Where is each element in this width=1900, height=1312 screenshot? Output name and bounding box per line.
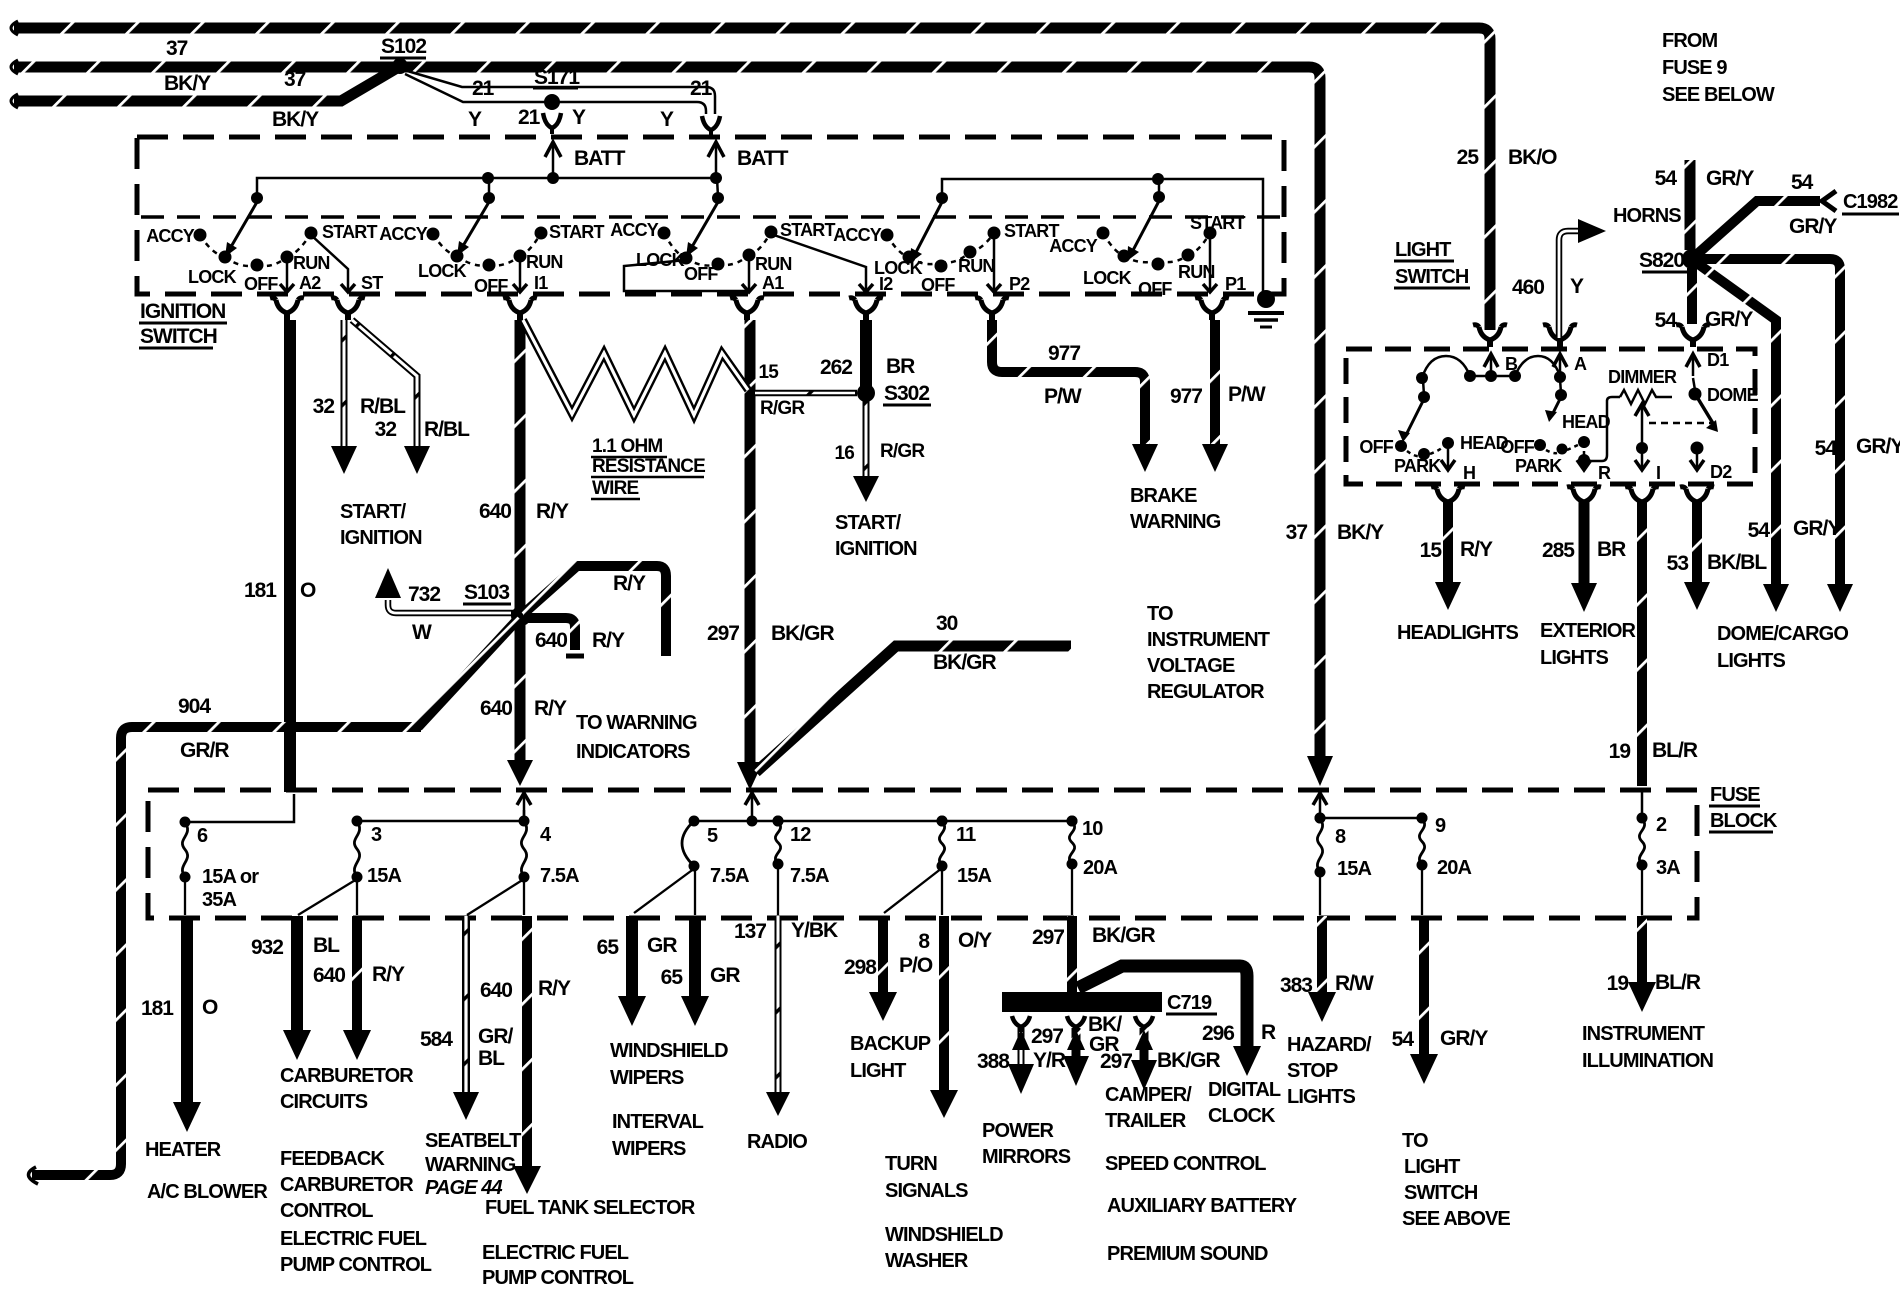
svg-text:16: 16 <box>834 443 854 464</box>
svg-text:GR/Y: GR/Y <box>1789 215 1837 238</box>
wire 54 GR/Y (S820 right, down to dome/cargo arrow) <box>1694 259 1900 612</box>
svg-text:ILLUMINATION: ILLUMINATION <box>1582 1050 1713 1072</box>
svg-text:I2: I2 <box>879 274 893 294</box>
wire fuse 4 to 640 wire <box>523 879 525 915</box>
light switch contact curve <box>1416 356 1566 384</box>
wire 584 GR/BL (to seatbelt warning) <box>420 916 514 1120</box>
svg-text:20A: 20A <box>1083 857 1117 879</box>
label BRAKE WARNING <box>1130 485 1221 533</box>
svg-text:OFF: OFF <box>1359 437 1393 457</box>
svg-text:FEEDBACK: FEEDBACK <box>280 1148 385 1170</box>
svg-text:OFF: OFF <box>244 274 278 294</box>
fuse 10 (20A) <box>1067 816 1118 880</box>
wire 54 GR/Y (S820 to C1982) <box>1694 171 1899 257</box>
ignition switch cluster 2 (I1) <box>379 202 604 296</box>
wire 19 BL/R (fuse 2 to instrument illumination) <box>1607 916 1701 1012</box>
svg-text:S102: S102 <box>381 35 426 58</box>
dimmer resistor <box>1608 367 1677 404</box>
svg-text:R/Y: R/Y <box>613 572 646 595</box>
svg-text:R/GR: R/GR <box>880 441 925 462</box>
ignition switch cluster 1 (A2/ST) <box>146 202 377 294</box>
light switch right wiper chain <box>1500 379 1610 476</box>
fuse 5 (7.5A) <box>682 816 749 888</box>
label TO LIGHT SWITCH SEE ABOVE <box>1402 1130 1510 1230</box>
svg-text:21: 21 <box>472 77 495 100</box>
ground (ignition switch P1) <box>1248 290 1284 327</box>
svg-text:12: 12 <box>790 824 811 846</box>
svg-text:54: 54 <box>1392 1028 1415 1051</box>
light switch terminal A <box>1553 354 1587 376</box>
label TO WARNING INDICATORS <box>576 712 697 763</box>
svg-text:O: O <box>202 996 218 1019</box>
fuse 6 (15A or 35A) <box>180 817 260 889</box>
svg-text:AUXILIARY BATTERY: AUXILIARY BATTERY <box>1107 1195 1298 1217</box>
svg-text:START/: START/ <box>340 501 407 523</box>
ignition switch terminal P2 <box>987 235 1030 294</box>
svg-text:Y: Y <box>468 108 482 131</box>
wire 732 W (S103 to arrow up) <box>375 568 513 644</box>
svg-text:S103: S103 <box>464 581 509 604</box>
label FEEDBACK CARBURETOR CONTROL <box>280 1148 414 1222</box>
connector below light switch R <box>1567 487 1601 502</box>
wire 137 Y/BK (to radio) <box>734 916 838 1116</box>
ignition switch cluster 4 (P2) <box>833 202 1059 295</box>
wire internal bus (right) <box>936 173 1263 296</box>
svg-text:388: 388 <box>977 1050 1010 1073</box>
svg-text:R/Y: R/Y <box>592 629 625 652</box>
svg-text:D1: D1 <box>1707 350 1729 370</box>
svg-text:BK/Y: BK/Y <box>164 72 211 95</box>
svg-text:HAZARD/: HAZARD/ <box>1287 1034 1372 1056</box>
svg-text:DIMMER: DIMMER <box>1608 367 1677 387</box>
connector at x=747 below ignition switch <box>730 298 764 320</box>
light switch terminal D1 <box>1686 350 1729 376</box>
svg-text:2: 2 <box>1656 814 1667 836</box>
svg-text:START: START <box>322 222 377 242</box>
svg-text:297: 297 <box>1032 926 1064 949</box>
svg-text:8: 8 <box>918 930 930 953</box>
svg-text:HEATER: HEATER <box>145 1139 222 1161</box>
light switch box (dashed) <box>1346 349 1755 484</box>
BATT terminal 1 <box>545 142 626 176</box>
ignition switch cluster 5 (P1) <box>1049 201 1245 299</box>
fuse 8 (15A) <box>1315 813 1372 881</box>
svg-text:D2: D2 <box>1710 462 1732 482</box>
svg-text:BACKUP: BACKUP <box>850 1033 931 1055</box>
svg-text:GR/Y: GR/Y <box>1706 167 1754 190</box>
svg-text:OFF: OFF <box>1500 437 1534 457</box>
svg-text:BLOCK: BLOCK <box>1710 810 1778 832</box>
svg-text:19: 19 <box>1609 740 1631 763</box>
svg-text:21: 21 <box>690 77 713 100</box>
svg-text:CIRCUITS: CIRCUITS <box>280 1091 368 1113</box>
svg-text:15: 15 <box>758 362 779 383</box>
svg-text:IGNITION: IGNITION <box>140 300 225 323</box>
svg-text:MIRRORS: MIRRORS <box>982 1146 1071 1168</box>
svg-text:STOP: STOP <box>1287 1060 1338 1082</box>
wire fuse 12 to 137 wire <box>777 866 779 915</box>
svg-text:A/C BLOWER: A/C BLOWER <box>147 1181 268 1203</box>
svg-text:LIGHT: LIGHT <box>850 1060 906 1082</box>
ignition switch terminal I2 <box>771 234 893 294</box>
svg-text:LIGHT: LIGHT <box>1395 239 1451 261</box>
svg-text:TO: TO <box>1147 603 1173 625</box>
label START/IGNITION (left) <box>340 501 422 549</box>
svg-text:FUSE 9: FUSE 9 <box>1662 57 1727 79</box>
svg-text:TRAILER: TRAILER <box>1105 1110 1187 1132</box>
label 25 BK/O <box>1457 146 1558 169</box>
svg-text:SWITCH: SWITCH <box>140 325 217 348</box>
svg-text:ACCY: ACCY <box>379 224 428 244</box>
svg-text:WASHER: WASHER <box>885 1250 969 1272</box>
wire 296 R (C719 to digital clock) <box>1078 966 1276 1076</box>
svg-text:START/: START/ <box>835 512 902 534</box>
ignition switch inner dashed line <box>141 215 1280 219</box>
wire 25 BK/O (top bar, turns down to light switch B) <box>11 21 1490 330</box>
light switch left wiper chain <box>1359 380 1508 476</box>
label DOME/CARGO LIGHTS <box>1717 623 1848 672</box>
fuse 9 (20A) <box>1417 813 1472 880</box>
svg-text:Y/BK: Y/BK <box>791 919 838 942</box>
svg-text:HORNS: HORNS <box>1613 205 1681 227</box>
svg-text:ELECTRIC FUEL: ELECTRIC FUEL <box>482 1242 629 1264</box>
svg-text:WIRE: WIRE <box>592 478 639 499</box>
svg-text:BRAKE: BRAKE <box>1130 485 1197 507</box>
svg-text:Y: Y <box>572 106 586 129</box>
svg-text:1.1 OHM: 1.1 OHM <box>592 436 662 457</box>
wire 383 R/W (fuse 8 to hazard/stop lights) <box>1280 916 1374 1022</box>
label LIGHT SWITCH <box>1394 239 1470 288</box>
svg-text:262: 262 <box>820 356 852 379</box>
wire fuse 9 to 54 wire <box>1421 867 1423 915</box>
wire 54 GR/Y (S820 diagonal, down to dome/cargo arrow) <box>1694 261 1841 612</box>
svg-text:15: 15 <box>1420 539 1443 562</box>
svg-text:INSTRUMENT: INSTRUMENT <box>1582 1023 1705 1045</box>
splice S820 <box>1639 249 1702 272</box>
wire 8 O/Y (to turn signals) <box>918 916 992 1118</box>
wire fuse 4 to 584 wire <box>467 879 524 915</box>
wire 932 BL (to carburetor circuits) <box>251 916 340 1060</box>
svg-text:OFF: OFF <box>1138 279 1172 299</box>
svg-text:Y: Y <box>660 108 674 131</box>
svg-text:GR: GR <box>710 964 740 987</box>
label INTERVAL WIPERS <box>612 1111 704 1160</box>
fuse 2 (3A) <box>1637 813 1681 880</box>
wire fuse 10 to 297 wire <box>1071 866 1073 915</box>
svg-text:POWER: POWER <box>982 1120 1055 1142</box>
svg-text:BK/GR: BK/GR <box>1092 924 1156 947</box>
fuse 11 (15A) <box>937 816 992 888</box>
wire 640 R/Y (S103 short elbow) <box>523 618 625 656</box>
svg-text:INSTRUMENT: INSTRUMENT <box>1147 629 1270 651</box>
wire fuse 8-9 bus <box>1315 813 1428 824</box>
connector at light switch D1 (above box) <box>1676 325 1710 347</box>
svg-text:I: I <box>1656 463 1660 483</box>
wire 32 R/BL (ST, first) <box>313 320 407 474</box>
svg-text:GR/R: GR/R <box>180 739 229 762</box>
svg-text:R: R <box>1598 463 1611 483</box>
svg-text:LIGHT: LIGHT <box>1404 1156 1460 1178</box>
svg-text:PARK: PARK <box>1515 456 1562 476</box>
svg-text:WINDSHIELD: WINDSHIELD <box>885 1224 1003 1246</box>
label CAMPER/ TRAILER <box>1105 1084 1192 1132</box>
label POWER MIRRORS <box>982 1120 1071 1168</box>
svg-text:RUN: RUN <box>293 253 330 273</box>
svg-text:CAMPER/: CAMPER/ <box>1105 1084 1192 1106</box>
svg-text:VOLTAGE: VOLTAGE <box>1147 655 1235 677</box>
svg-text:WIPERS: WIPERS <box>610 1067 684 1089</box>
svg-text:FUSE: FUSE <box>1710 784 1760 806</box>
ignition switch box (dashed) <box>137 137 1284 294</box>
svg-text:GR/Y: GR/Y <box>1856 435 1900 458</box>
svg-text:GR/Y: GR/Y <box>1705 308 1753 331</box>
svg-text:R/GR: R/GR <box>760 398 805 419</box>
svg-text:A2: A2 <box>299 273 321 293</box>
wire fuse 3-4 bus <box>357 820 524 823</box>
arrow feed above fuse 4 <box>517 793 531 818</box>
fuse 4 (7.5A) <box>519 816 580 888</box>
svg-text:CLOCK: CLOCK <box>1208 1105 1276 1127</box>
wire 285 BR (R to exterior lights) <box>1542 502 1626 612</box>
wire fuse 2 feed (from 19 BL/R) <box>1641 792 1644 816</box>
wire 262 BR (I2 to S302) <box>820 320 915 387</box>
resistance wire (1.1 ohm zigzag) <box>523 320 748 415</box>
svg-text:GR: GR <box>647 934 677 957</box>
ignition switch terminal P1 <box>1203 235 1246 294</box>
svg-text:REGULATOR: REGULATOR <box>1147 681 1265 703</box>
svg-text:584: 584 <box>420 1028 453 1051</box>
svg-text:137: 137 <box>734 920 766 943</box>
svg-text:O: O <box>300 579 316 602</box>
svg-text:IGNITION: IGNITION <box>835 538 917 560</box>
wire 53 BK/BL (D2 down) <box>1667 502 1768 610</box>
svg-text:W: W <box>412 621 432 644</box>
svg-text:I1: I1 <box>534 273 548 293</box>
splice S103 <box>463 581 531 626</box>
svg-text:904: 904 <box>178 695 211 718</box>
wire 640 R/Y (to feedback carburetor control) <box>313 916 405 1060</box>
svg-text:7.5A: 7.5A <box>710 865 749 887</box>
wire 904 GR/R (S103 down-left, to lower left hook) <box>28 618 519 1184</box>
svg-text:IGNITION: IGNITION <box>340 527 422 549</box>
svg-text:4: 4 <box>540 824 552 846</box>
svg-text:54: 54 <box>1748 519 1771 542</box>
BATT terminal 2 <box>708 142 789 176</box>
wire 181 O (A2 to fuse 6) <box>244 320 316 792</box>
svg-text:O/Y: O/Y <box>958 929 992 952</box>
svg-text:296: 296 <box>1202 1022 1234 1045</box>
svg-text:TO WARNING: TO WARNING <box>576 712 697 734</box>
wire 977 P/W (P2 to brake warning) <box>992 320 1158 472</box>
wire fuse 6 to heater wire <box>184 879 186 915</box>
ignition switch terminal ST <box>311 235 383 293</box>
svg-text:298: 298 <box>844 956 877 979</box>
svg-text:LIGHTS: LIGHTS <box>1717 650 1785 672</box>
svg-text:INDICATORS: INDICATORS <box>576 741 690 763</box>
svg-text:RESISTANCE: RESISTANCE <box>592 456 705 477</box>
wire internal bus (left) <box>251 172 724 204</box>
svg-text:ACCY: ACCY <box>610 220 659 240</box>
svg-text:BK/GR: BK/GR <box>771 622 835 645</box>
svg-text:START: START <box>1190 213 1245 233</box>
svg-text:WARNING: WARNING <box>1130 511 1221 533</box>
svg-text:GR/: GR/ <box>478 1025 514 1048</box>
label EXTERIOR LIGHTS <box>1540 620 1636 669</box>
svg-text:SPEED CONTROL: SPEED CONTROL <box>1105 1153 1266 1175</box>
svg-text:640: 640 <box>479 500 511 523</box>
wire 977 P/W (P1 to brake warning) <box>1170 320 1266 472</box>
svg-text:PUMP CONTROL: PUMP CONTROL <box>482 1267 634 1289</box>
light switch terminal R and dimmer feed <box>1577 397 1620 483</box>
arrow feed above fuse 5/12 <box>745 793 759 818</box>
svg-text:P/O: P/O <box>899 954 933 977</box>
svg-text:297: 297 <box>1100 1050 1132 1073</box>
svg-text:R/W: R/W <box>1335 972 1374 995</box>
svg-text:BK/Y: BK/Y <box>1337 521 1384 544</box>
light switch terminal D2 <box>1690 442 1732 483</box>
svg-text:CARBURETOR: CARBURETOR <box>280 1174 414 1196</box>
label WINDSHIELD WASHER <box>885 1224 1003 1272</box>
connector below S171 <box>543 113 561 134</box>
svg-text:15A or: 15A or <box>202 866 259 888</box>
svg-text:3A: 3A <box>1656 857 1680 879</box>
svg-text:OFF: OFF <box>474 276 508 296</box>
label CARBURETOR CIRCUITS <box>280 1065 414 1113</box>
svg-text:P2: P2 <box>1009 274 1030 294</box>
svg-text:932: 932 <box>251 936 283 959</box>
wire 54 GR/Y (fuse 9 to light switch, see above) <box>1392 916 1489 1084</box>
svg-text:181: 181 <box>244 579 277 602</box>
wire (cluster 3 LOCK to A1 terminal) <box>624 260 747 291</box>
svg-text:BL: BL <box>313 934 340 957</box>
svg-text:RUN: RUN <box>526 252 563 272</box>
svg-text:54: 54 <box>1655 167 1678 190</box>
connector at light switch B (above box) <box>1473 325 1507 347</box>
splice S302 <box>857 382 931 405</box>
ignition switch terminal I1 <box>513 258 548 293</box>
svg-text:RUN: RUN <box>958 256 995 276</box>
ignition switch terminal A1 <box>742 257 784 293</box>
svg-text:R/Y: R/Y <box>1460 538 1493 561</box>
label WINDSHIELD WIPERS <box>610 1040 728 1089</box>
svg-text:ACCY: ACCY <box>1049 236 1098 256</box>
svg-text:54: 54 <box>1815 437 1838 460</box>
label ELECTRIC FUEL PUMP CONTROL (right) <box>482 1242 634 1289</box>
svg-text:DOME: DOME <box>1707 385 1759 405</box>
wire fuse 3 to 932 wire <box>298 879 357 915</box>
wire fuse 2 to 19 wire <box>1641 867 1643 915</box>
connector below light switch D2 <box>1680 487 1714 502</box>
svg-text:19: 19 <box>1607 972 1629 995</box>
svg-text:65: 65 <box>597 936 620 959</box>
svg-text:15A: 15A <box>957 865 991 887</box>
svg-text:37: 37 <box>284 68 306 91</box>
label 1.1 OHM RESISTANCE WIRE <box>591 436 705 499</box>
svg-text:SIGNALS: SIGNALS <box>885 1180 968 1202</box>
arrow feed above fuse 8 <box>1313 793 1327 818</box>
wire 16 R/GR (S302 down to start/ignition) <box>834 400 925 502</box>
svg-text:A1: A1 <box>762 273 784 293</box>
svg-text:LIGHTS: LIGHTS <box>1540 647 1608 669</box>
label FUSE BLOCK <box>1709 784 1778 832</box>
svg-text:BK/O: BK/O <box>1508 146 1557 169</box>
wire fuse 6 feed (from 181 bar) <box>185 794 294 822</box>
svg-text:SWITCH: SWITCH <box>1395 266 1469 288</box>
connector at light switch A (above box) <box>1543 325 1577 347</box>
svg-text:TO: TO <box>1402 1130 1428 1152</box>
svg-text:25: 25 <box>1457 146 1480 169</box>
svg-text:54: 54 <box>1791 171 1814 194</box>
svg-text:S820: S820 <box>1639 249 1684 272</box>
wire 297 BK/GR (A1 to fuse block) <box>707 320 835 790</box>
wire 54 GR/Y (from fuse 9 to S820) <box>1655 160 1755 250</box>
wire fuse 8 to 383 wire <box>1319 874 1321 915</box>
svg-text:DOME/CARGO: DOME/CARGO <box>1717 623 1848 645</box>
light switch terminal I <box>1635 404 1712 483</box>
svg-text:FUEL TANK SELECTOR: FUEL TANK SELECTOR <box>485 1197 696 1219</box>
wire fuse 3 to 640 wire <box>356 879 358 915</box>
svg-text:GR/Y: GR/Y <box>1440 1027 1488 1050</box>
svg-text:977: 977 <box>1170 385 1202 408</box>
svg-text:ACCY: ACCY <box>833 225 882 245</box>
wire 65 GR (interval wipers) <box>661 916 741 1026</box>
svg-text:Y: Y <box>1570 275 1584 298</box>
svg-text:977: 977 <box>1048 342 1080 365</box>
svg-text:383: 383 <box>1280 974 1312 997</box>
connector at x=520 below ignition switch <box>503 298 537 320</box>
wire 30 BK/GR (to instrument voltage regulator) <box>756 612 1071 772</box>
svg-text:ST: ST <box>361 273 383 293</box>
svg-text:6: 6 <box>197 825 208 847</box>
connector below light switch H <box>1431 487 1465 502</box>
label ELECTRIC FUEL PUMP CONTROL (left) <box>280 1228 432 1276</box>
svg-text:640: 640 <box>313 964 345 987</box>
svg-text:BK/GR: BK/GR <box>1157 1049 1221 1072</box>
svg-text:7.5A: 7.5A <box>790 865 829 887</box>
svg-text:C1982: C1982 <box>1843 191 1898 213</box>
wire bus 37 BK/Y (top feed, turns down to fuse 8) <box>11 60 1333 786</box>
svg-text:H: H <box>1463 463 1475 483</box>
svg-text:LOCK: LOCK <box>1083 268 1132 288</box>
fuse 12 (7.5A) <box>773 816 830 888</box>
svg-text:640: 640 <box>480 979 512 1002</box>
svg-text:EXTERIOR: EXTERIOR <box>1540 620 1636 642</box>
svg-text:R/Y: R/Y <box>534 697 567 720</box>
svg-text:R/Y: R/Y <box>536 500 569 523</box>
svg-text:FROM: FROM <box>1662 30 1718 52</box>
svg-text:TURN: TURN <box>885 1153 937 1175</box>
svg-text:640: 640 <box>480 697 512 720</box>
connector at BATT 2 feed <box>702 116 720 136</box>
svg-text:RUN: RUN <box>755 254 792 274</box>
svg-text:A: A <box>1574 354 1587 374</box>
svg-text:ACCY: ACCY <box>146 226 195 246</box>
svg-text:START: START <box>780 220 835 240</box>
connector below light switch I <box>1625 487 1659 502</box>
label 37 BK/Y (long wire) <box>1286 521 1385 544</box>
svg-text:37: 37 <box>1286 521 1308 544</box>
svg-text:BATT: BATT <box>574 147 626 170</box>
svg-text:WIPERS: WIPERS <box>612 1138 686 1160</box>
svg-text:460: 460 <box>1512 276 1544 299</box>
connector C719 <box>1002 992 1217 1014</box>
ignition switch terminal A2 <box>280 259 321 293</box>
svg-text:OFF: OFF <box>921 275 955 295</box>
wire fuse 11 to 298 wire <box>884 868 942 913</box>
connector at x=287 below ignition switch <box>270 298 304 320</box>
wire 388 / 297 Y/R (C719 to power mirrors) <box>977 1016 1066 1094</box>
connector at x=866 below ignition switch <box>849 298 883 320</box>
